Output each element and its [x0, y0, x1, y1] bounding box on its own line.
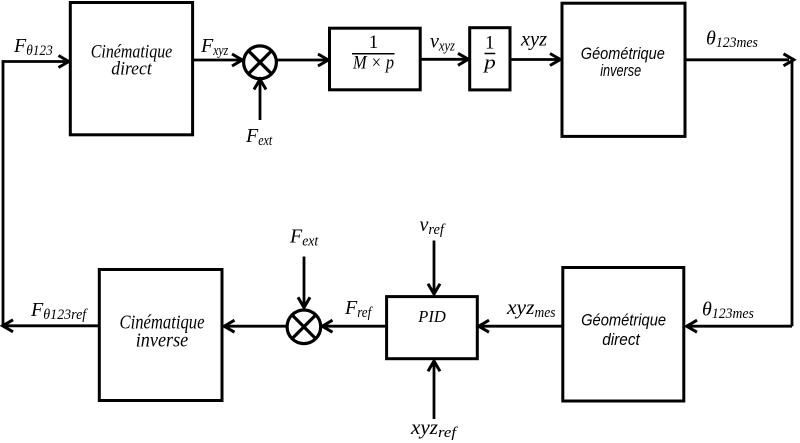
svg-text:PID: PID [417, 307, 446, 326]
wire: input into B1 with arrow [2, 56, 69, 68]
wire: right corner to B5 with arrow [687, 320, 792, 332]
block: Géométrique direct (B5) [563, 268, 684, 402]
block: 1/(M×p) (B2) [330, 28, 421, 90]
block: PID controller [387, 297, 478, 359]
block: Cinématique direct (B1) [70, 3, 192, 135]
svg-text:xyz: xyz [520, 29, 547, 51]
block: 1/p (B3) [470, 28, 510, 90]
wire: B5 to PID with arrow [479, 320, 563, 332]
svg-text:direct: direct [111, 60, 152, 80]
wire: B1 to S1 with arrow [193, 54, 243, 66]
block: Cinématique inverse (B6) [99, 270, 222, 401]
wire: PID to S2 with arrow [322, 320, 386, 332]
wire: S2 to B6 with arrow [224, 320, 287, 332]
wire: B6 to left corner with arrow [3, 320, 100, 332]
wire: feedback right vertical [791, 60, 794, 326]
wire: B2 to B3 with arrow [420, 53, 468, 65]
summing junction S2 (bottom) [287, 310, 321, 344]
svg-text:1: 1 [485, 33, 495, 54]
block: Géométrique inverse (B4) [562, 3, 685, 136]
wire: xyz_ref into PID bottom (arrow up) [428, 361, 440, 419]
svg-text:inverse: inverse [600, 61, 641, 80]
summing junction S1 (top) [244, 46, 277, 79]
wire: F_ext top into S1 (arrow up) [254, 79, 266, 120]
svg-text:inverse: inverse [136, 331, 189, 352]
svg-text:p: p [482, 53, 496, 74]
svg-text:Géométrique: Géométrique [581, 311, 666, 330]
wire: v_ref into PID top (arrow down) [428, 241, 440, 295]
svg-text:direct: direct [602, 330, 641, 349]
wire: B3 to B4 with arrow [510, 54, 560, 66]
wire: B4 to right corner with arrow [685, 54, 794, 66]
svg-text:M × p: M × p [352, 53, 394, 74]
wire: F_ext bottom into S2 (arrow down) [298, 257, 310, 308]
svg-text:1: 1 [369, 32, 379, 53]
wire: feedback left vertical [2, 62, 5, 326]
wire: S1 to B2 with arrow [276, 54, 328, 66]
